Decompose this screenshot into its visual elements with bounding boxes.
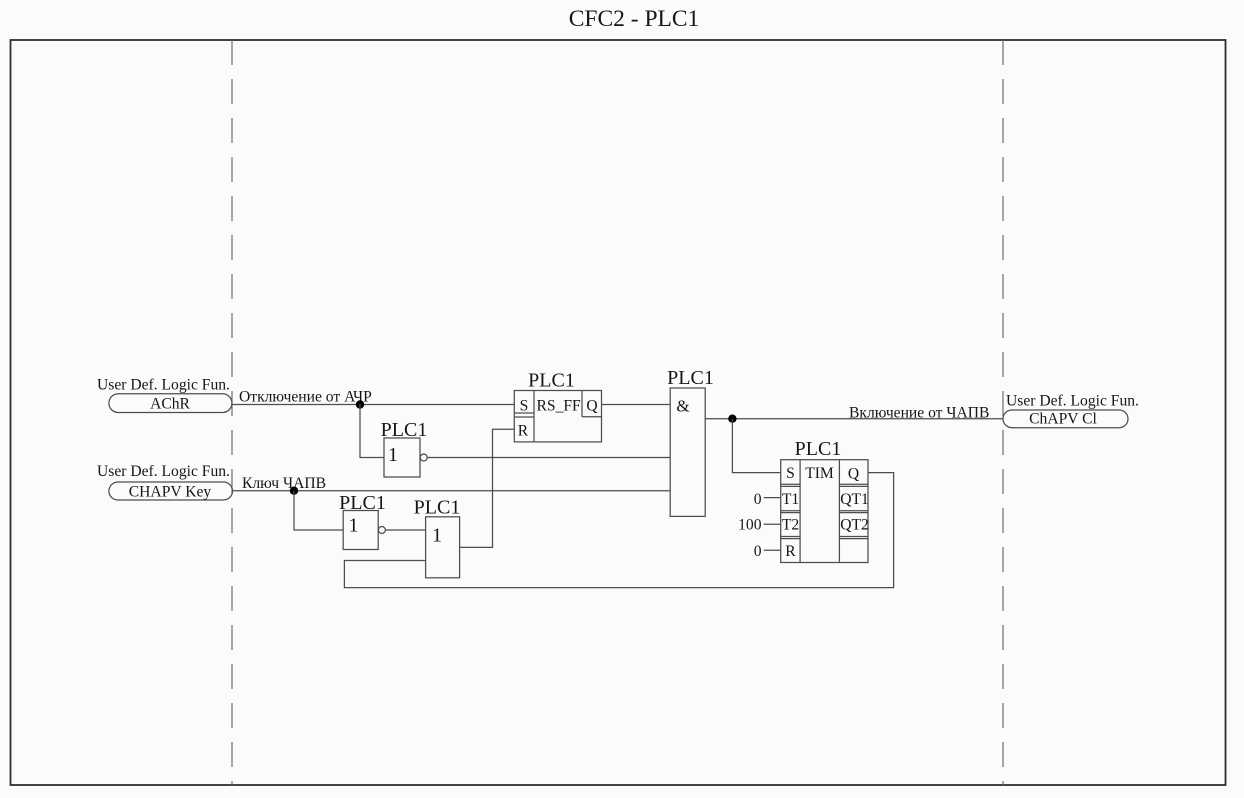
svg-text:PLC1: PLC1 (414, 497, 461, 519)
NOT gate U3 PLC1 (339, 492, 386, 550)
svg-text:1: 1 (349, 515, 359, 537)
svg-text:User Def. Logic Fun.: User Def. Logic Fun. (1006, 393, 1139, 410)
RS flip-flop U1 PLC1 RS_FF (514, 370, 601, 442)
svg-text:0: 0 (754, 543, 762, 560)
svg-text:PLC1: PLC1 (795, 438, 842, 460)
svg-text:Q: Q (586, 398, 597, 415)
svg-text:S: S (520, 398, 529, 415)
svg-text:Включение от ЧАПВ: Включение от ЧАПВ (849, 405, 989, 422)
left margin separator (231, 40, 233, 785)
wire U4 output to output port ChAPV Cl (705, 418, 1003, 420)
junction on CHAPV Key wire (290, 487, 298, 495)
svg-text:QT1: QT1 (840, 491, 869, 508)
wire junction down to NOT gate U2 input (360, 405, 384, 458)
wire RS_FF Q output to AND gate U4 input 1 (602, 404, 671, 406)
wire U5 output up to RS_FF R input (460, 429, 515, 547)
svg-text:Q: Q (848, 466, 859, 483)
svg-text:T1: T1 (782, 491, 799, 508)
wire junction down to NOT gate U3 input (294, 491, 343, 530)
wire CHAPV Key to AND gate U4 input 3 (233, 490, 671, 492)
input port AChR (109, 394, 232, 413)
svg-text:ChAPV Cl: ChAPV Cl (1029, 411, 1097, 428)
svg-text:PLC1: PLC1 (528, 370, 575, 392)
svg-text:S: S (786, 465, 795, 482)
svg-text:R: R (518, 423, 529, 440)
NOT gate U2 PLC1 (381, 419, 428, 477)
svg-text:0: 0 (754, 491, 762, 508)
svg-text:1: 1 (432, 525, 442, 547)
wire AChR to RS_FF S input (232, 404, 514, 406)
svg-text:R: R (785, 543, 796, 560)
svg-text:Отключение от АЧР: Отключение от АЧР (239, 389, 372, 406)
svg-text:TIM: TIM (805, 465, 834, 482)
timer U6 PLC1 TIM (781, 438, 869, 563)
svg-text:CFC2 - PLC1: CFC2 - PLC1 (569, 6, 700, 32)
svg-text:&: & (676, 397, 689, 416)
svg-text:100: 100 (738, 517, 762, 534)
input port CHAPV Key (109, 482, 233, 500)
junction on AChR wire (356, 400, 364, 408)
AND gate U4 PLC1 (667, 367, 714, 516)
wire U3 output to OR gate U5 input 1 (385, 529, 425, 531)
wire U2 output to AND gate U4 input 2 (427, 457, 670, 459)
svg-text:AChR: AChR (150, 396, 190, 413)
svg-text:QT2: QT2 (840, 517, 869, 534)
svg-text:RS_FF: RS_FF (537, 398, 582, 415)
right margin separator (1002, 40, 1004, 785)
svg-text:User Def. Logic Fun.: User Def. Logic Fun. (97, 377, 230, 394)
svg-text:CHAPV Key: CHAPV Key (129, 484, 212, 501)
wire junction down to timer U6 S input (732, 419, 780, 473)
svg-text:1: 1 (388, 444, 398, 466)
svg-text:User Def. Logic Fun.: User Def. Logic Fun. (97, 463, 230, 480)
svg-text:Ключ ЧАПВ: Ключ ЧАПВ (242, 475, 326, 492)
svg-text:PLC1: PLC1 (667, 367, 714, 389)
output port ChAPV Cl (1003, 410, 1128, 428)
svg-text:T2: T2 (782, 517, 799, 534)
wire TIM Q output feedback to OR gate U5 input 2 (344, 473, 893, 588)
junction on U4 output wire (728, 415, 736, 423)
OR gate U5 PLC1 (414, 497, 461, 578)
